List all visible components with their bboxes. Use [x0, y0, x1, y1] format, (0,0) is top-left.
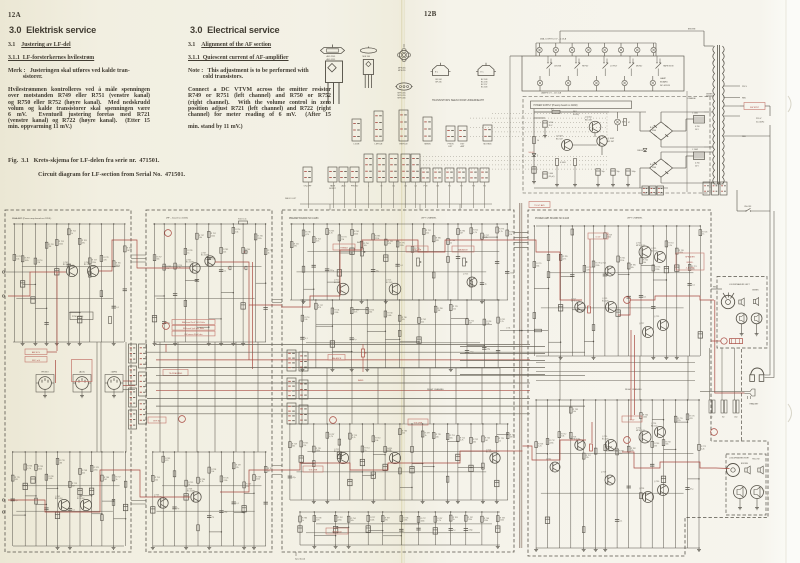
svg-text:BC 547: BC 547	[556, 138, 564, 140]
connector P5 C4	[411, 154, 420, 182]
connector M3 board edge	[287, 403, 296, 424]
svg-text:Q 1002: Q 1002	[608, 138, 615, 140]
svg-text:100k: 100k	[116, 265, 120, 267]
switch S2 HI FILT	[575, 56, 577, 63]
capacitor col8	[627, 295, 631, 297]
resistor col1	[546, 439, 549, 445]
svg-text:10k: 10k	[211, 471, 214, 473]
wire return rail	[300, 367, 500, 369]
transistor AD149 top pin	[332, 45, 334, 48]
resistor2 col9	[640, 493, 643, 499]
svg-text:56k: 56k	[536, 266, 539, 268]
svg-text:50μ: 50μ	[602, 171, 605, 173]
electrolytic col12	[675, 265, 679, 271]
svg-text:AUD 5955: AUD 5955	[327, 58, 336, 61]
svg-text:100k: 100k	[48, 478, 52, 480]
resistor col8	[101, 475, 104, 481]
connector P11 P4	[480, 168, 489, 182]
wire column 4	[367, 512, 369, 545]
svg-text:1M: 1M	[127, 250, 130, 252]
resistor2 col12	[432, 272, 435, 278]
red label speaker impedance	[676, 253, 704, 270]
wire column 10	[411, 424, 413, 500]
resistor col5	[351, 229, 354, 235]
resistor col7	[90, 465, 93, 471]
svg-text:22k: 22k	[236, 467, 239, 469]
wire column 14	[698, 400, 700, 548]
svg-text:0,1: 0,1	[224, 271, 227, 273]
wire column 9	[113, 452, 115, 546]
svg-text:FM stereo 30μV dev: FM stereo 30μV dev	[184, 333, 202, 336]
svg-text:BC 547B: BC 547B	[186, 262, 194, 264]
capacitor C1002	[596, 169, 600, 175]
ground col3	[46, 342, 48, 344]
connector M5 board edge	[299, 380, 308, 399]
wire mid rail B	[297, 271, 487, 273]
transistor Q 730/	[658, 485, 669, 496]
ground col2	[560, 356, 562, 358]
svg-text:SW SPST: SW SPST	[750, 107, 760, 109]
ground col5	[68, 342, 70, 344]
resistor col5	[68, 229, 71, 235]
ground col1	[313, 545, 315, 547]
wire mid rail A	[162, 485, 262, 487]
svg-text:LEFT CHANNEL: LEFT CHANNEL	[627, 217, 643, 220]
svg-text:IMPED.: IMPED.	[687, 262, 694, 264]
wire crosslink	[209, 318, 221, 320]
wire crosslink	[373, 454, 385, 456]
svg-text:Q 1001: Q 1001	[585, 117, 592, 119]
resistor col8	[243, 482, 246, 488]
wire mid rail A	[307, 450, 499, 452]
capacitor col8	[627, 485, 631, 487]
svg-text:220k: 220k	[484, 520, 488, 522]
resistor col3	[326, 432, 329, 438]
connector K2 input select	[129, 366, 137, 385]
resistor col13	[686, 414, 689, 420]
red resistor R750	[590, 444, 593, 451]
electrolytic col1	[545, 517, 549, 523]
wire column 12	[676, 226, 678, 356]
transistor Q 717/MPS 6531	[575, 302, 585, 312]
svg-text:22k: 22k	[436, 436, 439, 438]
electrolytic col4	[55, 269, 59, 275]
wires power amp mid zone horizontals	[536, 362, 695, 364]
lamp DL5	[604, 43, 606, 48]
svg-text:220k: 220k	[550, 443, 554, 445]
svg-text:4,7k: 4,7k	[354, 312, 358, 314]
svg-text:PHONO: PHONO	[41, 372, 49, 374]
wire column 11	[422, 424, 424, 500]
svg-text:56k: 56k	[369, 312, 372, 314]
resistor col4	[197, 477, 200, 483]
wire mid rail A	[307, 250, 499, 252]
svg-text:10k: 10k	[235, 231, 238, 233]
svg-text:0,1: 0,1	[116, 307, 119, 309]
transistor Q 705/BC 547B	[190, 263, 200, 273]
ground col7	[372, 500, 374, 502]
wire column 0	[535, 400, 537, 548]
speaker icon left B	[753, 300, 755, 304]
electrolytic col7	[616, 310, 620, 316]
resistor col9	[399, 429, 402, 435]
capacitor col6	[219, 510, 223, 512]
red trace RIAA right channel	[8, 470, 124, 512]
ground col9	[450, 368, 452, 370]
svg-text:4,7k: 4,7k	[306, 234, 310, 236]
transistor Q 721/	[605, 266, 615, 276]
connector K4 input select	[129, 410, 137, 429]
ground DIN (AUX)	[81, 389, 83, 394]
svg-text:NO 41183: NO 41183	[660, 85, 671, 87]
svg-text:1M: 1M	[460, 233, 463, 235]
resistor col4	[196, 233, 199, 239]
wire crosslink	[482, 236, 497, 238]
svg-text:47μ: 47μ	[293, 477, 296, 479]
wire return rail	[536, 355, 700, 357]
wire column 9	[397, 224, 399, 300]
resistor col6	[78, 238, 81, 244]
wire column 6	[604, 400, 606, 548]
harness dotted lines row 1	[492, 113, 607, 115]
capacitor col0	[300, 336, 304, 338]
capacitor col10	[263, 307, 267, 309]
resistor col0	[290, 242, 293, 248]
svg-text:AUX: AUX	[341, 185, 346, 188]
svg-text:Q 728: Q 728	[639, 488, 644, 490]
svg-text:100μ: 100μ	[632, 171, 636, 173]
svg-text:LEFT CHANNEL: LEFT CHANNEL	[421, 217, 437, 220]
electrolytic col1	[20, 281, 24, 287]
transistor Q 702/BC 109C	[58, 499, 69, 510]
svg-text:BD 142: BD 142	[651, 250, 657, 252]
svg-text:C 3200: C 3200	[650, 167, 656, 169]
board box power amp	[528, 210, 768, 556]
ground col5	[208, 342, 210, 344]
resistor2 col4	[197, 525, 200, 531]
wire column 9	[640, 226, 642, 356]
resistor col5	[381, 516, 384, 522]
transformer primary taps	[724, 85, 741, 87]
electrolytic col5	[348, 479, 352, 485]
electrolytic col6	[78, 317, 82, 323]
wire crosslink	[451, 318, 467, 320]
ground col9	[113, 546, 115, 548]
wire crosslink	[497, 434, 508, 436]
wire column 6	[361, 224, 363, 300]
svg-text:BC 547: BC 547	[608, 141, 616, 143]
electrolytic col4	[337, 452, 341, 458]
connector J5 PHON EXT	[446, 126, 455, 141]
connector J3 HSPOLE	[399, 110, 408, 141]
capacitor col2	[172, 506, 176, 508]
resistor col12	[432, 432, 435, 438]
transistor Q 732/	[550, 462, 560, 472]
svg-text:470: 470	[385, 520, 388, 522]
capacitor col16	[480, 282, 484, 284]
transistor MJE340 hole	[366, 62, 371, 67]
wire column 1	[548, 226, 550, 356]
svg-text:B 40: B 40	[650, 164, 654, 166]
svg-text:0,1: 0,1	[644, 296, 647, 298]
resistor col7	[418, 317, 421, 323]
wire column 1	[300, 424, 302, 500]
resistor col11	[665, 241, 668, 247]
wire crosslink	[35, 307, 46, 309]
wire column 4	[57, 452, 59, 546]
resistor R1001	[533, 137, 536, 144]
wire column 13	[447, 224, 449, 300]
svg-text:RADIO LEFT: RADIO LEFT	[285, 197, 297, 200]
speaker circle right B	[751, 486, 764, 499]
svg-text:VOLUME: VOLUME	[414, 423, 423, 425]
wire column 0	[154, 224, 156, 342]
wire column 0	[299, 512, 301, 545]
resistor col11	[481, 516, 484, 522]
svg-text:YELLOW: YELLOW	[752, 459, 760, 461]
svg-text:220k: 220k	[334, 312, 338, 314]
ground col5	[595, 548, 597, 550]
DIN socket box (TAPE)	[105, 375, 123, 393]
wire crosslink	[314, 535, 335, 537]
svg-text:BC 547B: BC 547B	[187, 491, 195, 493]
wires DIN (AUX) sides	[73, 382, 76, 384]
wire supply rail	[153, 223, 266, 225]
wire supply rail	[153, 451, 266, 453]
svg-text:VOLUME: VOLUME	[413, 250, 422, 252]
resistor col13	[446, 434, 449, 440]
connector M2 board edge	[287, 378, 296, 399]
resistor col5	[349, 433, 352, 439]
wire column 3	[326, 224, 328, 300]
svg-text:1k: 1k	[537, 140, 539, 142]
resistor R1002 series	[534, 111, 560, 113]
capacitor C1002 main filter	[694, 152, 705, 160]
wire column 2	[335, 512, 337, 545]
svg-text:2,2k: 2,2k	[500, 321, 504, 323]
svg-text:Q 715: Q 715	[463, 274, 468, 276]
pot VOLUME red label	[406, 246, 428, 252]
resistor col10	[411, 246, 414, 252]
resistor col12	[676, 248, 679, 254]
wire return rail	[290, 299, 508, 301]
svg-text:MPS 6531: MPS 6531	[636, 245, 645, 247]
wire column 1	[313, 512, 315, 545]
switch S4 MONO	[629, 56, 631, 63]
resistor col13	[688, 265, 691, 271]
connector P15 PHONO	[350, 167, 359, 182]
resistor col7	[372, 436, 375, 442]
wire column 0	[291, 224, 293, 300]
wire column 8	[242, 224, 244, 342]
capacitor col9	[449, 528, 453, 530]
capacitor C1005	[534, 117, 545, 119]
wire column 9	[450, 512, 452, 545]
wires connector row 2 drops to boards	[308, 182, 310, 208]
wire mid rail B	[306, 532, 480, 534]
capacitor col2	[312, 264, 316, 266]
capacitor col10	[650, 463, 654, 465]
svg-text:220k: 220k	[655, 269, 659, 271]
ground col5	[208, 546, 210, 548]
resistor R1005	[624, 119, 627, 126]
svg-text:10k: 10k	[561, 436, 564, 438]
svg-text:100k: 100k	[316, 450, 320, 452]
resistor col12	[497, 317, 500, 323]
resistor col14	[698, 444, 701, 450]
resistor col9	[253, 475, 256, 481]
resistor2 col3	[184, 300, 187, 306]
svg-text:4,7k: 4,7k	[473, 232, 477, 234]
wire crosslink	[46, 487, 57, 489]
transistor pinout house BC548	[478, 66, 494, 76]
transistor pinout house BF244	[433, 66, 449, 76]
resistor col1	[302, 230, 305, 236]
wire input board stub	[295, 552, 297, 556]
svg-text:56k: 56k	[292, 446, 295, 448]
pot BASS	[361, 248, 364, 256]
wire mid rail B	[156, 510, 254, 512]
svg-text:220k: 220k	[468, 519, 472, 521]
wire column 5	[593, 226, 595, 356]
capacitor C1004	[626, 169, 630, 175]
svg-text:220p: 220p	[468, 530, 472, 532]
ground col12	[497, 545, 499, 547]
wire crosslink	[316, 325, 333, 327]
svg-text:LAMP: LAMP	[660, 77, 666, 80]
resistor col15	[470, 228, 473, 234]
capacitor col6	[399, 528, 403, 530]
wire crosslink	[114, 518, 126, 520]
lamp DL2	[555, 43, 557, 48]
capacitor col10	[123, 288, 127, 290]
ground col1	[303, 300, 305, 302]
connector P10 P3	[469, 168, 478, 182]
resistor col2	[559, 254, 562, 260]
ground col6	[361, 300, 363, 302]
ground col2	[313, 500, 315, 502]
resistor col5	[69, 481, 72, 487]
resistor col8	[385, 239, 388, 245]
svg-text:1k: 1k	[71, 233, 73, 235]
wire mid rail A	[162, 266, 262, 268]
wire column 14	[699, 226, 701, 356]
wire column 7	[89, 224, 91, 342]
capacitor col6	[219, 269, 223, 271]
wire column 8	[100, 224, 102, 342]
red trace power amp right	[513, 450, 523, 452]
wire column 7	[372, 424, 374, 500]
svg-text:CROSS: CROSS	[554, 66, 562, 68]
ground col16	[481, 300, 483, 302]
wire crosslink	[400, 487, 412, 489]
resistor col3	[350, 308, 353, 314]
ground col6	[79, 342, 81, 344]
ground col2	[331, 368, 333, 370]
wire column 14	[457, 424, 459, 500]
svg-text:4,7k: 4,7k	[460, 440, 464, 442]
capacitor col7	[416, 527, 420, 529]
resistor col9	[640, 413, 643, 419]
resistor col5	[594, 448, 597, 454]
resistor col5	[384, 311, 387, 317]
wire crosslink	[25, 495, 36, 497]
svg-text:10k: 10k	[304, 319, 307, 321]
board box preamp	[282, 210, 514, 552]
wire bridge AC inputs	[660, 112, 662, 122]
bus wires mid gap	[460, 346, 545, 348]
svg-text:BC 109C: BC 109C	[84, 264, 92, 266]
svg-text:1k: 1k	[188, 484, 190, 486]
wire column 3	[185, 452, 187, 546]
wire column 18	[507, 424, 509, 500]
svg-text:C 1002: C 1002	[692, 149, 698, 151]
ground col14	[698, 548, 700, 550]
svg-text:470: 470	[318, 307, 321, 309]
wire mid rail B	[297, 471, 487, 473]
red label board left	[148, 417, 166, 423]
wire crosslink	[641, 264, 653, 266]
svg-text:470: 470	[15, 479, 18, 481]
svg-text:PREAMP BOARD NO 41153: PREAMP BOARD NO 41153	[289, 217, 319, 220]
DIN socket PHONO	[39, 377, 52, 390]
red wire to headset	[715, 300, 745, 393]
transistor Q 713/BC 549	[389, 283, 401, 295]
connector M6 board edge	[299, 405, 308, 424]
wire into speaker jack	[711, 288, 722, 290]
red test circle at note boxes	[163, 323, 170, 330]
headphone headband	[751, 368, 765, 375]
transistor package MJE340 body	[363, 60, 373, 75]
wires DIN PHONO sides	[36, 382, 39, 384]
capacitor col2	[173, 293, 177, 295]
electrolytic col2	[558, 305, 562, 311]
transistor MJE340 top pin	[368, 47, 370, 49]
wire crosslink	[352, 309, 368, 311]
resistor2 col4	[582, 527, 585, 533]
wire column 2	[313, 224, 315, 300]
DIN socket box PHONO	[36, 375, 54, 393]
resistor col2	[173, 471, 176, 477]
wire column 7	[233, 452, 235, 546]
wire column 2	[174, 224, 176, 342]
capacitor col13	[685, 487, 689, 489]
resistor2 col5	[592, 325, 595, 331]
svg-text:4,7k: 4,7k	[200, 481, 204, 483]
resistor col9	[450, 305, 453, 311]
wire crosslink	[652, 419, 663, 421]
resistor col0	[152, 475, 155, 481]
capacitor col5	[207, 257, 211, 259]
svg-text:56k: 56k	[351, 520, 354, 522]
wire column 7	[232, 224, 234, 342]
transistor MJE340 legs	[364, 75, 366, 89]
lamp DL7	[636, 43, 638, 48]
ground col3	[348, 545, 350, 547]
svg-text:470: 470	[82, 242, 85, 244]
ground DIN PHONO	[44, 389, 46, 394]
wire ps mid rail	[534, 111, 609, 113]
wire crosslink	[368, 530, 383, 532]
wire column 10	[265, 224, 267, 342]
svg-text:HI FILT: HI FILT	[582, 66, 589, 68]
svg-text:220k: 220k	[211, 235, 215, 237]
resistor col10	[264, 466, 267, 472]
wire column 4	[338, 224, 340, 300]
wire column 0	[12, 452, 14, 546]
svg-text:MPSU55: MPSU55	[398, 70, 406, 72]
svg-text:4,7k: 4,7k	[437, 520, 441, 522]
